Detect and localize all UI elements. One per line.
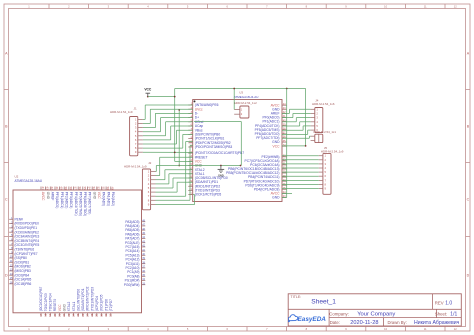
svg-text:30: 30: [99, 313, 103, 316]
svg-text:AREF: AREF: [51, 192, 55, 201]
svg-text:18: 18: [44, 313, 48, 316]
svg-text:58: 58: [69, 187, 73, 190]
svg-text:ATMEGA128-16AU: ATMEGA128-16AU: [15, 179, 43, 183]
svg-text:TITLE:: TITLE:: [291, 295, 302, 299]
svg-text:Date:: Date:: [330, 320, 340, 325]
svg-text:64: 64: [41, 187, 45, 190]
svg-text:(OC1B)PB6: (OC1B)PB6: [15, 282, 32, 286]
svg-text:29: 29: [95, 313, 99, 316]
svg-text:GND: GND: [272, 196, 280, 200]
svg-text:ATMEGA16U4-AU: ATMEGA16U4-AU: [234, 95, 259, 99]
svg-text:22: 22: [62, 313, 66, 316]
svg-text:63: 63: [46, 187, 50, 190]
svg-text:28: 28: [90, 313, 94, 316]
svg-text:D: D: [5, 273, 8, 277]
svg-text:54: 54: [87, 187, 91, 190]
svg-text:57: 57: [74, 187, 78, 190]
svg-text:C: C: [467, 197, 470, 201]
svg-text:(XCK1/#CTS)PD5: (XCK1/#CTS)PD5: [195, 193, 222, 197]
svg-text:60: 60: [60, 187, 64, 190]
svg-text:26: 26: [81, 313, 85, 316]
svg-text:GND: GND: [92, 192, 96, 200]
svg-text:55: 55: [83, 187, 87, 190]
svg-text:(SCL/INT0)PD0: (SCL/INT0)PD0: [76, 289, 80, 312]
svg-text:Никита Абражевич: Никита Абражевич: [414, 320, 460, 326]
svg-text:(RXD1/INT2)PD2: (RXD1/INT2)PD2: [86, 286, 90, 311]
svg-text:21: 21: [58, 313, 62, 316]
svg-text:Sheet:: Sheet:: [435, 312, 447, 317]
svg-text:J1: J1: [134, 106, 138, 110]
svg-text:(SDA/INT1)PD1: (SDA/INT1)PD1: [81, 288, 85, 311]
svg-text:53: 53: [92, 187, 96, 190]
svg-text:HDR-M-2.54_1x6: HDR-M-2.54_1x6: [312, 102, 335, 106]
svg-text:U3: U3: [239, 90, 243, 94]
svg-text:XTAL2: XTAL2: [67, 301, 71, 311]
svg-text:Your Company: Your Company: [357, 312, 395, 318]
svg-text:PF1(ADC1): PF1(ADC1): [60, 192, 64, 208]
svg-text:J2: J2: [148, 161, 152, 165]
svg-text:GND: GND: [63, 303, 67, 311]
svg-text:D: D: [467, 273, 470, 277]
svg-text:HDR-M-2.54_1x2: HDR-M-2.54_1x2: [234, 101, 257, 105]
svg-text:25: 25: [76, 313, 80, 316]
svg-text:59: 59: [64, 187, 68, 190]
svg-text:23: 23: [67, 313, 71, 316]
svg-text:GND: GND: [46, 192, 50, 200]
svg-text:RESET#: RESET#: [53, 299, 57, 312]
svg-text:REV: REV: [435, 300, 444, 305]
svg-text:GND: GND: [218, 174, 224, 178]
svg-text:PF7(ADC7/TDI): PF7(ADC7/TDI): [88, 192, 92, 215]
svg-text:TOSC2/PG3: TOSC2/PG3: [44, 293, 48, 311]
svg-text:(T2)PD7: (T2)PD7: [109, 299, 113, 311]
svg-text:32: 32: [109, 313, 113, 316]
svg-text:HDR-M-2.54_1x9: HDR-M-2.54_1x9: [321, 149, 344, 153]
svg-text:19: 19: [48, 313, 52, 316]
svg-text:Sheet_1: Sheet_1: [311, 299, 336, 306]
svg-text:EasyEDA: EasyEDA: [298, 316, 327, 323]
svg-text:(ICP1)PD4: (ICP1)PD4: [95, 296, 99, 312]
svg-text:TOSC1/PG4: TOSC1/PG4: [49, 293, 53, 311]
svg-text:(OC2/OC1C)PB7: (OC2/OC1C)PB7: [39, 287, 43, 312]
svg-text:24: 24: [72, 313, 76, 316]
svg-text:56: 56: [78, 187, 82, 190]
svg-text:52: 52: [97, 187, 101, 190]
svg-text:1/1: 1/1: [450, 312, 457, 318]
svg-text:(XCK1)PD5: (XCK1)PD5: [100, 294, 104, 311]
svg-text:PF5(ADC5/TMS): PF5(ADC5/TMS): [78, 192, 82, 216]
svg-text:49: 49: [111, 187, 115, 190]
svg-text:PA2(AD2): PA2(AD2): [111, 192, 115, 206]
svg-text:1.0: 1.0: [445, 300, 452, 306]
svg-text:HDR-M-2.54_1x9: HDR-M-2.54_1x9: [110, 110, 133, 114]
svg-text:Drawn By:: Drawn By:: [388, 320, 407, 325]
svg-text:61: 61: [55, 187, 59, 190]
svg-text:17: 17: [39, 313, 43, 316]
svg-text:VCC: VCC: [97, 192, 101, 199]
svg-text:PF2(ADC2): PF2(ADC2): [65, 192, 69, 208]
svg-text:51: 51: [101, 187, 105, 190]
svg-text:(TXD1/INT3)PD3: (TXD1/INT3)PD3: [90, 287, 94, 311]
svg-text:2020-11-28: 2020-11-28: [350, 320, 378, 326]
svg-text:C: C: [5, 197, 8, 201]
svg-text:PF4(ADC4/TCK): PF4(ADC4/TCK): [74, 192, 78, 216]
svg-text:VCC: VCC: [273, 144, 281, 148]
svg-text:AVCC: AVCC: [41, 192, 45, 201]
svg-text:PF3(ADC3): PF3(ADC3): [69, 192, 73, 208]
svg-text:20: 20: [53, 313, 57, 316]
svg-text:PA1(AD1): PA1(AD1): [106, 192, 110, 206]
svg-text:PF0(ADC0): PF0(ADC0): [55, 192, 59, 208]
svg-text:XTAL1: XTAL1: [72, 301, 76, 311]
svg-text:(PDO/PCINT3/MISO)PB3: (PDO/PCINT3/MISO)PB3: [195, 145, 233, 149]
svg-text:(T1)PD6: (T1)PD6: [104, 299, 108, 311]
svg-text:31: 31: [104, 313, 108, 316]
svg-text:50: 50: [106, 187, 110, 190]
svg-text:Company:: Company:: [329, 312, 349, 317]
svg-text:VCC: VCC: [144, 87, 152, 91]
svg-text:27: 27: [85, 313, 89, 316]
svg-text:62: 62: [50, 187, 54, 190]
svg-text:PA0(AD0): PA0(AD0): [102, 192, 106, 206]
svg-text:HDR-M-2.54_1x1: HDR-M-2.54_1x1: [314, 130, 337, 134]
svg-text:PG0(WR#): PG0(WR#): [124, 283, 140, 287]
svg-text:VCC: VCC: [58, 304, 62, 311]
svg-text:HDR-M-2.54_1x9: HDR-M-2.54_1x9: [124, 165, 147, 169]
svg-text:PF6(ADC6/TDO): PF6(ADC6/TDO): [83, 192, 87, 216]
